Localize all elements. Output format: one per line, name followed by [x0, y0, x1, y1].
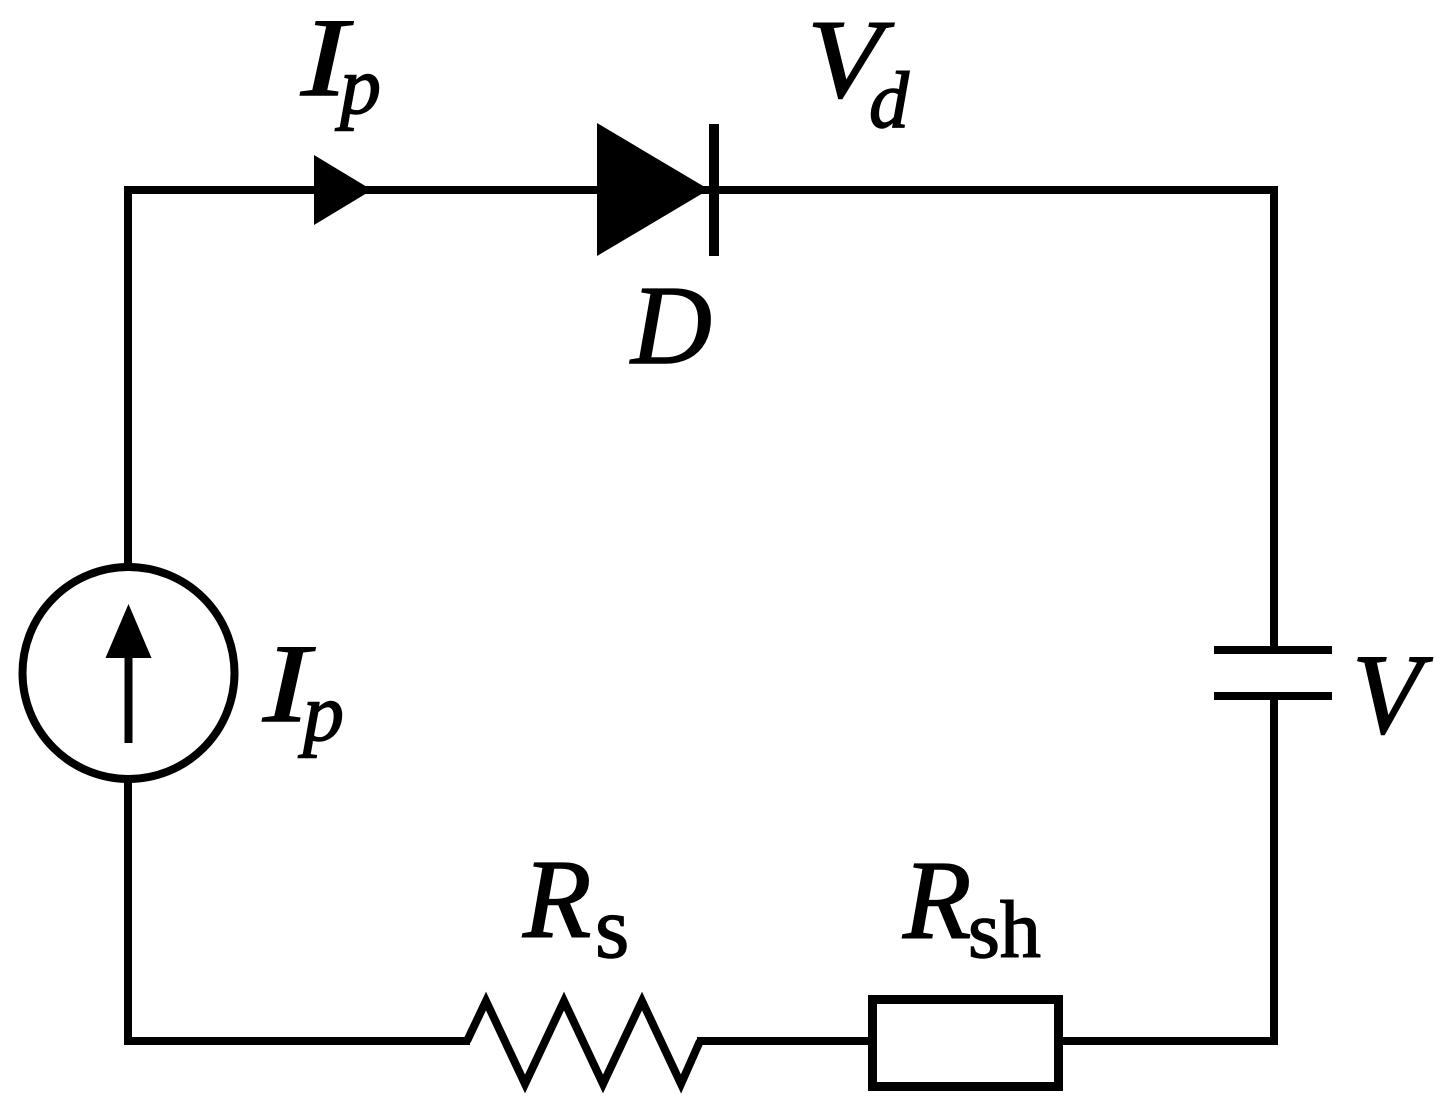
current arrow on top wire [314, 155, 372, 225]
svg-text:p: p [298, 667, 344, 758]
label Ip (top current) [300, 0, 354, 120]
wire bottom left (source bottom to Rs) [124, 1037, 470, 1045]
label Ip (source) [262, 622, 316, 746]
svg-text:V: V [1352, 631, 1433, 758]
label Vd (diode voltage) [807, 0, 895, 122]
svg-text:R: R [522, 838, 591, 962]
resistor Rsh box [873, 1000, 1059, 1087]
wire left lower (source bottom to bottom-left corner) [124, 777, 132, 1045]
diode D [597, 123, 709, 256]
resistor Rs zigzag [467, 1001, 700, 1084]
capacitor V [1214, 646, 1332, 654]
svg-text:s: s [595, 880, 629, 977]
wire right lower (capacitor bottom plate to bottom-right corner) [1270, 696, 1278, 1045]
current source Ip [23, 567, 235, 779]
wire right upper (diode cathode to capacitor top plate) [1270, 186, 1278, 650]
wire top (node between source, diode anode) [124, 186, 1278, 194]
svg-text:sh: sh [968, 884, 1041, 975]
wire bottom right (Rsh to bottom-right corner) [697, 1037, 1278, 1045]
svg-text:d: d [869, 57, 910, 145]
svg-text:D: D [629, 264, 712, 388]
wire left upper (source top to top-left corner) [124, 186, 132, 569]
svg-text:R: R [902, 839, 971, 963]
svg-text:p: p [335, 40, 381, 131]
